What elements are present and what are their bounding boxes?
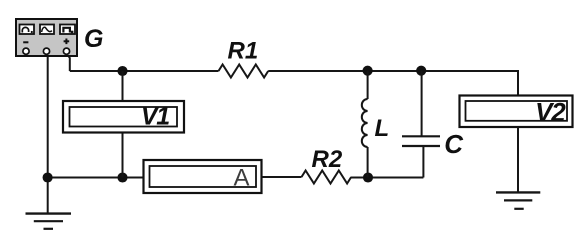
node junction L bottom xyxy=(363,172,373,182)
svg-text:A: A xyxy=(233,165,249,192)
G terminal plus xyxy=(63,48,69,54)
svg-text:R2: R2 xyxy=(312,146,343,173)
G terminal minus xyxy=(23,48,29,54)
G plus sign xyxy=(64,40,70,42)
svg-text:V1: V1 xyxy=(141,103,169,131)
wire top rail right segment xyxy=(268,70,518,72)
svg-text:V2: V2 xyxy=(535,97,566,127)
ammeter A xyxy=(144,160,262,193)
resistor R2 xyxy=(302,171,352,184)
G terminal common xyxy=(43,48,49,54)
node junction bottom-left xyxy=(43,172,53,182)
svg-text:L: L xyxy=(375,115,390,142)
ground (left) xyxy=(26,214,72,229)
wire bottom rail to capacitor xyxy=(368,177,423,179)
node junction C top xyxy=(416,66,426,76)
wire R2 to L bottom node xyxy=(351,177,368,179)
G minus sign xyxy=(23,41,28,43)
resistor R1 xyxy=(219,65,269,78)
wire from G plus terminal to top rail xyxy=(67,54,70,71)
voltmeter V2 xyxy=(460,96,573,128)
wire bottom-left rail xyxy=(48,177,144,179)
wire down to V2 top xyxy=(517,70,519,97)
voltmeter V1 xyxy=(63,101,184,133)
node junction top-left xyxy=(117,66,127,76)
wire V2 bottom to right ground xyxy=(517,127,519,192)
G waveform button 3 (square) xyxy=(60,25,75,35)
generator G xyxy=(16,19,77,56)
G waveform button 1 (pulse) xyxy=(20,25,35,35)
wire V1 bottom stub xyxy=(122,133,124,178)
wire A to R2 xyxy=(262,176,302,178)
node junction L top xyxy=(363,66,373,76)
inductor L xyxy=(362,71,368,178)
wire G common terminal down xyxy=(47,54,49,178)
capacitor C xyxy=(402,71,440,178)
ground (right) xyxy=(496,192,540,208)
svg-text:C: C xyxy=(444,129,464,159)
wire V1 top stub xyxy=(122,71,124,101)
svg-text:G: G xyxy=(84,25,103,53)
G waveform button 2 (sine) xyxy=(40,25,54,35)
wire top rail left segment xyxy=(70,70,219,72)
wire down to left ground xyxy=(47,178,49,214)
svg-text:R1: R1 xyxy=(228,37,259,64)
node junction V1 bottom xyxy=(117,172,127,182)
